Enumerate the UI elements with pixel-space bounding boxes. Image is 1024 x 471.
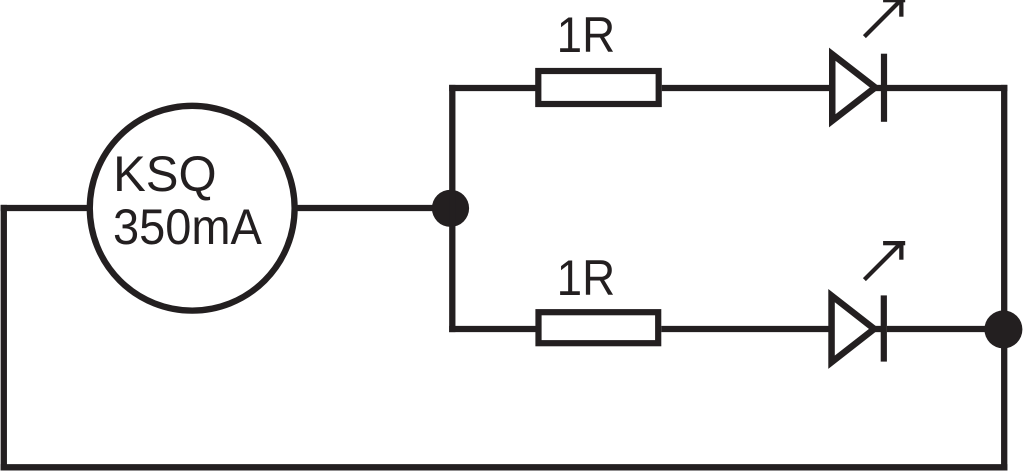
wire: right rail riser, x=1004.2 bbox=[1001, 85, 1007, 471]
wire: bottom return, y=467.3 bbox=[1, 464, 1008, 470]
svg-text:KSQ: KSQ bbox=[113, 146, 216, 202]
wire: R1 to LED D1 anode, y=88 bbox=[662, 85, 830, 91]
node A junction dot bbox=[432, 190, 469, 227]
LED D2 triangle bbox=[832, 296, 875, 363]
wire: LED D2 apex to cathode bar bbox=[871, 326, 881, 332]
wire: left rail vertical drop, x=3.8 bbox=[1, 205, 7, 471]
wire: R2 to LED D2 anode, y=329 bbox=[661, 326, 829, 332]
current source U1 (KSQ 350mA) circle bbox=[90, 106, 295, 311]
resistor R1 bbox=[538, 71, 658, 104]
svg-text:350mA: 350mA bbox=[113, 200, 263, 256]
LED D1 cathode bar bbox=[881, 54, 887, 122]
LED D2 cathode bar bbox=[881, 295, 887, 361]
wire: LED D2 cathode to node B, y=329 bbox=[887, 326, 1003, 332]
wire: LED D1 apex to cathode bar bbox=[872, 85, 881, 91]
LED D1 light-emission arrow bbox=[864, 0, 905, 37]
wire: bottom branch stub to resistor R2, y=329 bbox=[449, 326, 535, 332]
LED D2 light-emission arrow bbox=[864, 241, 905, 280]
svg-text:1R: 1R bbox=[557, 251, 616, 306]
wire: top branch stub to resistor R1, y=88 bbox=[449, 85, 535, 91]
resistor R2 bbox=[539, 312, 659, 343]
LED D1 triangle bbox=[832, 54, 875, 121]
wire: horizontal from left rail to current source, y=208 bbox=[1, 205, 87, 211]
node B junction dot bbox=[984, 310, 1022, 348]
wire: top branch from LED D1 cathode to right rail, y=88 bbox=[887, 85, 1007, 91]
svg-text:1R: 1R bbox=[557, 8, 616, 63]
wire: branch riser between top and bottom branch, x=452.3 bbox=[449, 85, 455, 332]
wire: current source output to node A, y=208 bbox=[297, 205, 451, 211]
